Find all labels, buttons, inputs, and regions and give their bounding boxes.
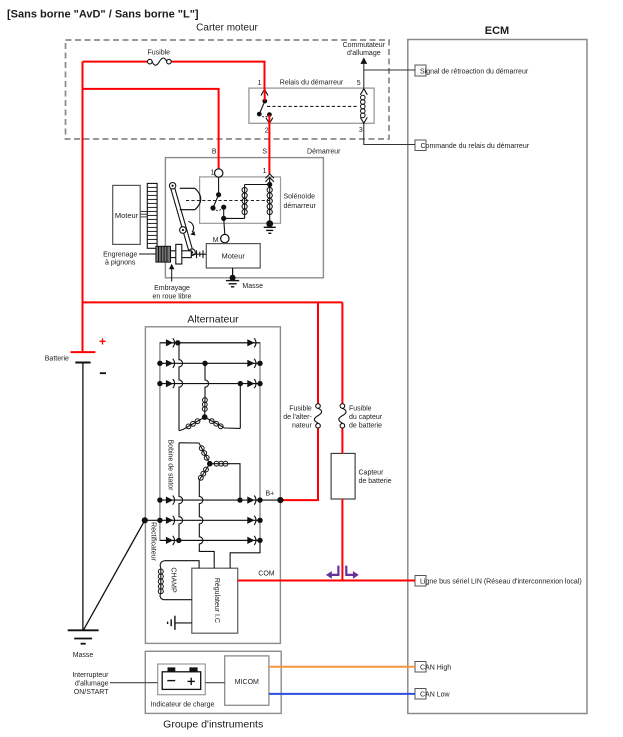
svg-text:Fusible: Fusible	[289, 406, 312, 413]
svg-text:+: +	[99, 335, 106, 349]
svg-text:MICOM: MICOM	[235, 679, 259, 686]
svg-text:Groupe d'instruments: Groupe d'instruments	[163, 719, 263, 731]
svg-text:de l'alter-: de l'alter-	[283, 414, 312, 421]
svg-text:de batterie: de batterie	[359, 478, 392, 485]
svg-text:Fusible: Fusible	[349, 406, 372, 413]
svg-text:B: B	[212, 149, 217, 156]
svg-text:ECM: ECM	[485, 25, 509, 37]
svg-text:Batterie: Batterie	[45, 355, 69, 362]
svg-text:1: 1	[263, 168, 267, 175]
svg-text:CAN High: CAN High	[420, 665, 451, 672]
svg-text:Rectificateur: Rectificateur	[149, 522, 156, 562]
svg-text:Indicateur de charge: Indicateur de charge	[151, 702, 215, 709]
svg-text:CHAMP: CHAMP	[170, 567, 177, 593]
svg-text:ON/START: ON/START	[74, 689, 109, 696]
svg-text:Embrayage: Embrayage	[154, 285, 190, 292]
svg-text:1: 1	[258, 80, 262, 87]
svg-text:d'allumage: d'allumage	[75, 681, 109, 688]
svg-text:Moteur: Moteur	[222, 252, 246, 261]
svg-text:Capteur: Capteur	[359, 470, 385, 477]
svg-text:Commande du relais du démarreu: Commande du relais du démarreur	[421, 143, 530, 150]
svg-text:d'allumage: d'allumage	[347, 50, 381, 57]
svg-text:à pignons: à pignons	[105, 260, 136, 267]
svg-text:Démarreur: Démarreur	[307, 149, 341, 156]
svg-text:Masse: Masse	[73, 652, 94, 659]
svg-text:Bobine de stator: Bobine de stator	[166, 440, 173, 492]
svg-text:Moteur: Moteur	[115, 211, 139, 220]
svg-text:Masse: Masse	[242, 283, 263, 290]
svg-text:Engrenage: Engrenage	[103, 251, 137, 258]
svg-text:2: 2	[265, 127, 269, 134]
svg-text:Carter moteur: Carter moteur	[196, 23, 258, 34]
svg-text:Fusible: Fusible	[148, 50, 171, 57]
svg-text:S: S	[262, 149, 267, 156]
svg-text:du capteur: du capteur	[349, 414, 383, 421]
svg-text:B+: B+	[266, 491, 275, 498]
svg-text:COM: COM	[258, 571, 275, 578]
svg-text:5: 5	[357, 80, 361, 87]
svg-text:Interrupteur: Interrupteur	[72, 672, 109, 679]
svg-text:Solénoïde: Solénoïde	[284, 193, 316, 200]
svg-text:Alternateur: Alternateur	[187, 314, 239, 326]
svg-text:CAN Low: CAN Low	[420, 692, 451, 699]
svg-text:en roue libre: en roue libre	[153, 294, 192, 301]
svg-text:de batterie: de batterie	[349, 423, 382, 430]
svg-text:nateur: nateur	[292, 423, 313, 430]
svg-text:[Sans borne "AvD" / Sans borne: [Sans borne "AvD" / Sans borne "L"]	[7, 9, 199, 21]
svg-text:Signal de rétroaction du démar: Signal de rétroaction du démarreur	[420, 68, 529, 75]
svg-text:Commutateur: Commutateur	[343, 42, 386, 49]
svg-text:Régulateur I.C: Régulateur I.C	[213, 578, 220, 623]
svg-text:Ligne bus sériel LIN (Réseau d: Ligne bus sériel LIN (Réseau d'interconn…	[420, 579, 582, 586]
svg-text:démarreur: démarreur	[284, 203, 317, 210]
svg-text:3: 3	[359, 127, 363, 134]
svg-text:Relais du démarreur: Relais du démarreur	[280, 80, 344, 87]
